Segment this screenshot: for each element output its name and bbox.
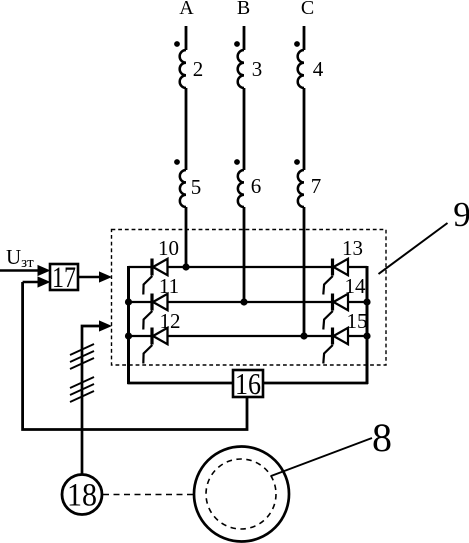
wire bridge row 2 bbox=[129, 301, 368, 303]
inductor L4 coil bbox=[298, 50, 304, 88]
dashed enclosure box 9 bbox=[112, 230, 387, 366]
block 16 bbox=[233, 366, 263, 401]
inductor L7 coil bbox=[298, 170, 304, 207]
wire Uzt input bbox=[0, 269, 42, 271]
svg-text:10: 10 bbox=[158, 236, 179, 260]
polarity dot winding 5 bbox=[174, 159, 180, 165]
node right edge row3 junction bbox=[363, 332, 370, 339]
polarity dot winding 7 bbox=[294, 159, 300, 165]
node phase A to row1 junction bbox=[182, 263, 189, 270]
motor circle 8 bbox=[194, 447, 289, 542]
sensor circle 18 bbox=[62, 475, 102, 515]
svg-text:C: C bbox=[301, 0, 314, 19]
svg-text:7: 7 bbox=[311, 174, 322, 198]
polarity dot winding 6 bbox=[234, 159, 240, 165]
arrow into block 17 top bbox=[38, 265, 51, 276]
wire feedback input to 17 bbox=[23, 281, 42, 283]
thyristor VS11 bbox=[143, 294, 167, 330]
svg-text:2: 2 bbox=[193, 57, 204, 81]
wire bridge row 3 bbox=[129, 335, 368, 337]
inductor L2 coil bbox=[180, 50, 186, 88]
wire box16 to bottom bus bbox=[23, 282, 247, 430]
wire phase A vertical bbox=[185, 26, 188, 267]
wire bridge right edge bbox=[366, 266, 369, 384]
thyristor VS14 bbox=[323, 294, 348, 330]
svg-text:5: 5 bbox=[191, 175, 202, 199]
arrow gate bus into box 9 bbox=[99, 320, 112, 331]
polarity dot winding 4 bbox=[294, 41, 300, 47]
svg-text:8: 8 bbox=[372, 415, 392, 460]
node phase C to row3 junction bbox=[300, 332, 307, 339]
svg-text:9: 9 bbox=[453, 195, 469, 234]
wire bridge bottom bbox=[128, 382, 369, 385]
block 17 bbox=[50, 261, 78, 294]
svg-text:B: B bbox=[237, 0, 250, 19]
pointer line to label 8 bbox=[271, 438, 372, 476]
svg-text:15: 15 bbox=[347, 309, 368, 333]
svg-text:17: 17 bbox=[52, 261, 76, 294]
wire bridge left edge bbox=[127, 266, 130, 384]
polarity dot winding 3 bbox=[234, 41, 240, 47]
wire block 17 output bbox=[78, 276, 100, 278]
thyristor VS15 bbox=[323, 328, 348, 364]
bus slash group 1 bbox=[70, 344, 94, 369]
dashed coupling 18 to 8 bbox=[103, 494, 194, 496]
svg-text:11: 11 bbox=[159, 274, 179, 298]
inductor L5 coil bbox=[180, 170, 186, 207]
svg-text:4: 4 bbox=[313, 57, 324, 81]
thyristor VS10 bbox=[143, 259, 167, 295]
svg-text:3: 3 bbox=[252, 57, 263, 81]
wire gate feedback vertical bbox=[82, 326, 100, 474]
svg-text:A: A bbox=[179, 0, 194, 19]
svg-text:14: 14 bbox=[345, 274, 367, 298]
node phase B to row2 junction bbox=[240, 298, 247, 305]
thyristor VS12 bbox=[143, 328, 167, 364]
svg-text:6: 6 bbox=[251, 174, 262, 198]
svg-text:16: 16 bbox=[235, 366, 261, 401]
svg-text:12: 12 bbox=[160, 309, 181, 333]
node left edge row3 junction bbox=[125, 332, 132, 339]
arrow into block 17 bottom bbox=[38, 276, 51, 287]
wire phase C vertical bbox=[303, 26, 306, 336]
wire bridge row 1 bbox=[129, 266, 368, 268]
thyristor VS13 bbox=[323, 259, 348, 295]
svg-text:13: 13 bbox=[342, 236, 363, 260]
arrow output 17 into box 9 bbox=[99, 271, 112, 282]
inductor L3 coil bbox=[238, 50, 244, 88]
bus slash group 2 bbox=[70, 377, 94, 402]
node right edge row2 junction bbox=[363, 298, 370, 305]
polarity dot winding 2 bbox=[174, 41, 180, 47]
node left edge row2 junction bbox=[125, 298, 132, 305]
pointer line to label 9 bbox=[379, 223, 448, 274]
wire phase B vertical bbox=[243, 26, 246, 302]
inductor L6 coil bbox=[238, 170, 244, 207]
svg-text:18: 18 bbox=[67, 478, 97, 514]
